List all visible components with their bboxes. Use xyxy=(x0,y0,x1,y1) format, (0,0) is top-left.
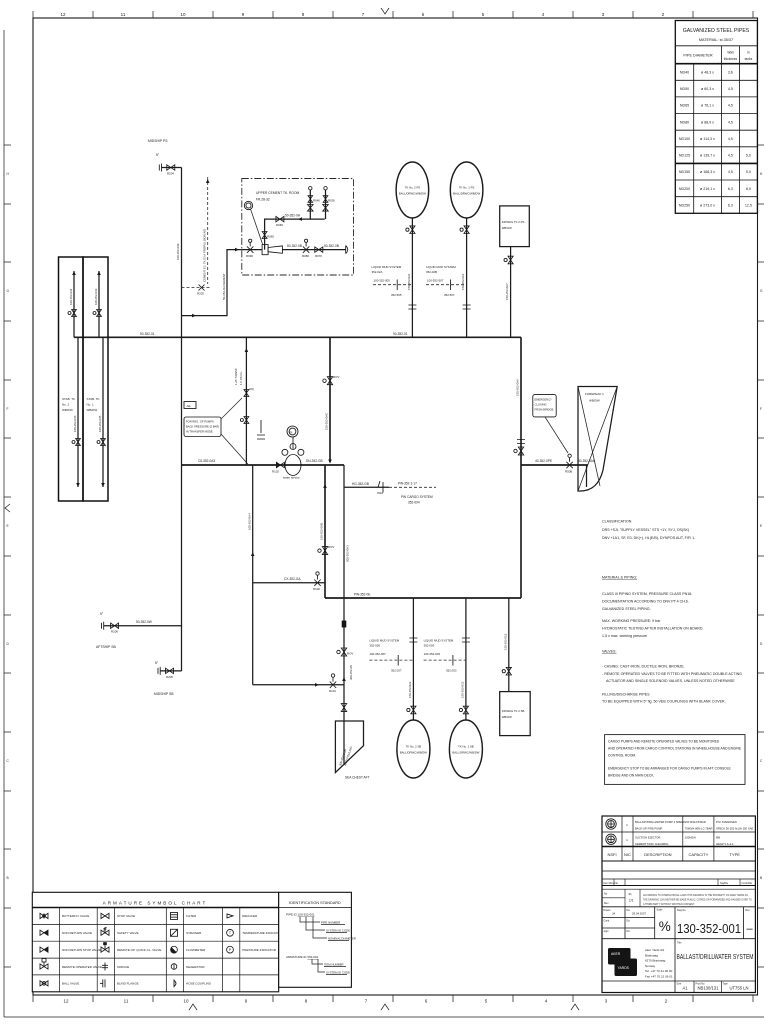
svg-text:PIPE NUMBER: PIPE NUMBER xyxy=(321,921,340,925)
svg-text:E: E xyxy=(760,524,762,528)
svg-text:ø 219,1 x: ø 219,1 x xyxy=(700,187,715,191)
svg-text:Fax +47 70 21 06 01: Fax +47 70 21 06 01 xyxy=(645,975,673,979)
svg-text:FOREPEAK 1: FOREPEAK 1 xyxy=(585,392,604,396)
svg-text:R090: R090 xyxy=(246,254,253,258)
cement inlet valve xyxy=(247,246,253,252)
svg-text:352-02A: 352-02A xyxy=(372,270,383,274)
svg-text:DNV +1A1, SF, E0, DK(+), HL(E/: DNV +1A1, SF, E0, DK(+), HL(E/B), DYNPOS… xyxy=(602,536,695,540)
svg-text:100-352-045: 100-352-045 xyxy=(98,415,102,432)
big loop left lower edge xyxy=(324,465,326,598)
symbol non return stop valve xyxy=(40,947,48,952)
svg-text:TEMPERATURE INDICATOR: TEMPERATURE INDICATOR xyxy=(242,931,282,935)
svg-text:SYSTEM ID CODE: SYSTEM ID CODE xyxy=(326,971,350,975)
svg-text:A1: A1 xyxy=(682,986,688,991)
sheet bottom edge xyxy=(4,1016,764,1018)
svg-text:10: 10 xyxy=(180,12,186,17)
symbol orifice xyxy=(104,963,106,971)
water ejector xyxy=(285,455,301,476)
side letters xyxy=(7,172,764,880)
svg-text:P.M. SVENDSEN: P.M. SVENDSEN xyxy=(716,820,737,824)
svg-text:AKER: AKER xyxy=(611,952,621,956)
svg-text:AFTSHIP SB: AFTSHIP SB xyxy=(96,645,116,649)
tank 2 SB valve xyxy=(411,706,416,714)
svg-text:PIPE ID 100-352-001: PIPE ID 100-352-001 xyxy=(286,913,315,917)
svg-text:ARMATURE ID 352-001: ARMATURE ID 352-001 xyxy=(286,955,319,959)
svg-text:- CASING: CAST IRON, DUCTILE: - CASING: CAST IRON, DUCTILE IRON, BRONZ… xyxy=(602,665,685,669)
svg-text:MAX. WORKING PRESSURE: 9 bar: MAX. WORKING PRESSURE: 9 bar xyxy=(602,619,661,623)
stab tank no.2 box xyxy=(59,257,84,501)
svg-text:HG-352-GB: HG-352-GB xyxy=(352,482,369,486)
vertical x344 down to sea chest xyxy=(343,465,345,765)
svg-text:10: 10 xyxy=(183,999,189,1004)
svg-text:150-352-022: 150-352-022 xyxy=(408,681,412,698)
cement discharge valves xyxy=(303,246,309,252)
svg-text:R203: R203 xyxy=(197,292,204,296)
svg-text:WB/DW: WB/DW xyxy=(502,715,512,719)
svg-text:352-004: 352-004 xyxy=(408,501,420,505)
svg-text:R100: R100 xyxy=(313,587,320,591)
symbol reducer xyxy=(227,914,233,918)
svg-text:100-352-044: 100-352-044 xyxy=(69,288,73,305)
svg-text:PW-352-0E: PW-352-0E xyxy=(354,592,370,596)
bottom ruler ticks xyxy=(33,995,753,1002)
svg-text:LIQUID MUD SYSTEM: LIQUID MUD SYSTEM xyxy=(369,639,399,643)
sheet left edge xyxy=(3,30,5,1017)
svg-text:150-352-012: 150-352-012 xyxy=(503,633,507,650)
svg-text:AND OPERATED FROM CARGO CONTRO: AND OPERATED FROM CARGO CONTROL STATIONS… xyxy=(608,747,742,751)
svg-text:300-352-0S: 300-352-0S xyxy=(349,665,353,680)
svg-text:R204: R204 xyxy=(167,172,174,176)
svg-text:R070: R070 xyxy=(315,254,322,258)
valve forepeak line xyxy=(566,462,572,468)
bottom ruler numbers xyxy=(63,999,667,1004)
svg-text:ORIFICE: ORIFICE xyxy=(117,965,129,969)
svg-text:R030: R030 xyxy=(328,199,335,203)
svg-text:6270 Brattvaag: 6270 Brattvaag xyxy=(645,959,666,963)
svg-text:No. 1: No. 1 xyxy=(87,403,95,407)
svg-text:BALL/DRWC/WB/DW: BALL/DRWC/WB/DW xyxy=(399,192,426,196)
svg-text:Brattvaag: Brattvaag xyxy=(645,953,658,957)
svg-text:PRESSURE INDICATOR: PRESSURE INDICATOR xyxy=(242,948,276,952)
valve on x330 riser xyxy=(327,377,332,385)
svg-text:R101: R101 xyxy=(329,689,336,693)
svg-text:Contr/Da: Contr/Da xyxy=(742,881,753,885)
cargo pumps note box xyxy=(605,735,745,785)
svg-text:GALVANIZED STEEL PIPING.: GALVANIZED STEEL PIPING. xyxy=(602,607,651,611)
svg-text:UPPER CEMENT TK. ROOM: UPPER CEMENT TK. ROOM xyxy=(256,191,300,195)
svg-text:200-352-0A3: 200-352-0A3 xyxy=(346,545,350,562)
svg-text:3,6: 3,6 xyxy=(728,70,733,74)
svg-text:CLOSING: CLOSING xyxy=(535,403,547,407)
galvanized steel pipes table xyxy=(675,21,757,214)
svg-text:50-352-0H CEMENT: 50-352-0H CEMENT xyxy=(222,273,226,300)
svg-text:HYDROSTATIC TESTING AFTER INST: HYDROSTATIC TESTING AFTER INSTALLATION O… xyxy=(602,627,704,631)
svg-text:REDUCER: REDUCER xyxy=(242,914,258,918)
svg-text:Aker Yards AS: Aker Yards AS xyxy=(645,948,664,952)
svg-text:VALVES:: VALVES: xyxy=(602,650,616,654)
note box pumps back pressure xyxy=(184,417,221,437)
emergency closing note xyxy=(533,395,556,417)
pipe labels xyxy=(140,332,595,597)
svg-text:4,5: 4,5 xyxy=(728,87,733,91)
svg-text:in: in xyxy=(747,51,750,55)
rotated pipe labels xyxy=(222,273,520,540)
svg-text:BALL/DRWC/WB/DW: BALL/DRWC/WB/DW xyxy=(400,751,427,755)
tank DR/WAG TK 2 SB xyxy=(500,692,531,736)
tank DR/WAG TK 2 PS xyxy=(500,206,530,247)
svg-text:MIDSHIP PS: MIDSHIP PS xyxy=(148,139,168,143)
tick on cargo branch xyxy=(382,482,384,493)
svg-text:130-352-001: 130-352-001 xyxy=(677,921,741,936)
svg-text:R065: R065 xyxy=(267,235,274,239)
dashed cross connection xyxy=(182,287,211,289)
svg-text:CEMENT TANK CLEANING: CEMENT TANK CLEANING xyxy=(635,842,668,846)
svg-text:100-352-046: 100-352-046 xyxy=(73,415,77,432)
svg-text:Appr: Appr xyxy=(604,930,609,933)
cement ejector line xyxy=(242,249,262,251)
svg-text:A THIRD PARTY WITHOUT WRITTEN: A THIRD PARTY WITHOUT WRITTEN CONSENT. xyxy=(643,903,695,906)
svg-text:150-352-021: 150-352-021 xyxy=(407,273,411,290)
svg-text:PI: PI xyxy=(290,431,293,435)
svg-text:–: – xyxy=(746,923,753,935)
upper cement tk room boundary xyxy=(242,179,354,276)
svg-text:HOSE COUPLING: HOSE COUPLING xyxy=(186,982,212,986)
tank FOREPEAK 1 xyxy=(578,387,617,492)
svg-text:R50B: R50B xyxy=(565,470,572,474)
svg-text:SUCTION EJECTOR: SUCTION EJECTOR xyxy=(635,836,660,840)
svg-text:352.007: 352.007 xyxy=(391,669,402,673)
svg-text:ø 114,3 x: ø 114,3 x xyxy=(700,137,715,141)
tank TK No. 1 PS xyxy=(450,162,483,218)
svg-text:NSFI: NSFI xyxy=(607,852,616,857)
vertical from line A to line B xyxy=(329,337,331,462)
svg-text:ACTUATOR AND SINGLE SOLENOID V: ACTUATOR AND SINGLE SOLENOID VALVES, UNL… xyxy=(606,679,735,683)
svg-text:6,3: 6,3 xyxy=(728,203,733,207)
svg-text:Item Rev No: Item Rev No xyxy=(604,881,619,885)
valve on right edge x521 xyxy=(518,447,523,455)
svg-text:40-352-0PE: 40-352-0PE xyxy=(535,459,552,463)
svg-text:DRS +SJL "SUPPLY VESSEL" STS +: DRS +SJL "SUPPLY VESSEL" STS +1Y, SYJ, O… xyxy=(602,528,689,532)
svg-text:ND125: ND125 xyxy=(679,154,690,158)
svg-text:50-352-0B: 50-352-0B xyxy=(324,244,339,248)
svg-text:11: 11 xyxy=(124,999,129,1004)
svg-text:BALLAST/DRILLWATER PUMP 2 SPEE: BALLAST/DRILLWATER PUMP 2 SPEED xyxy=(635,820,685,824)
svg-text:ND65: ND65 xyxy=(680,104,689,108)
svg-text:100-352-0A4: 100-352-0A4 xyxy=(247,513,251,530)
svg-text:NON RETURN VALVE: NON RETURN VALVE xyxy=(62,931,92,935)
svg-text:CARGO PUMPS AND REMOTE OPERATE: CARGO PUMPS AND REMOTE OPERATED VALVES T… xyxy=(608,740,720,744)
svg-text:C5-352-0A3: C5-352-0A3 xyxy=(198,459,215,463)
svg-text:BALL/DRWC/WB/DW: BALL/DRWC/WB/DW xyxy=(452,751,479,755)
svg-text:SYSTEM ID CODE: SYSTEM ID CODE xyxy=(326,929,350,933)
svg-text:F: F xyxy=(7,407,9,411)
symbol temperature indicator xyxy=(227,929,234,936)
svg-text:Rev: Rev xyxy=(604,902,609,905)
symbol flowmeter xyxy=(171,946,178,953)
symbol pressure indicator xyxy=(227,946,234,953)
svg-text:ROV: ROV xyxy=(347,652,353,656)
svg-text:150-352-0AC: 150-352-0AC xyxy=(325,413,329,430)
svg-text:BACK PRESSURE (5 BAR): BACK PRESSURE (5 BAR) xyxy=(186,425,219,429)
fittings on sea chest leg xyxy=(342,621,347,628)
svg-text:FLOWMETER: FLOWMETER xyxy=(186,948,206,952)
ejector drive riser xyxy=(265,219,325,250)
svg-text:B: B xyxy=(7,876,9,880)
svg-text:NON RETURN STOP VALVE: NON RETURN STOP VALVE xyxy=(62,948,101,952)
svg-text:FR.28-32: FR.28-32 xyxy=(256,198,270,202)
big loop right edge xyxy=(520,337,522,598)
centering mark bottom left xyxy=(189,1004,197,1010)
side ruler ticks xyxy=(4,145,764,967)
svg-text:Title: Title xyxy=(677,942,682,945)
line B (suction header) xyxy=(182,464,345,466)
symbol ball valve xyxy=(40,981,48,986)
svg-text:CONTROL ROOM.: CONTROL ROOM. xyxy=(608,754,636,758)
svg-text:Dwg No: Dwg No xyxy=(677,909,686,912)
tank TK No. 2 PS xyxy=(396,162,429,218)
midship ps riser xyxy=(181,168,183,672)
svg-text:PIPE DIAMETER: PIPE DIAMETER xyxy=(683,54,713,58)
svg-text:WB/DW: WB/DW xyxy=(502,226,512,230)
svg-text:TK No. 1 SB: TK No. 1 SB xyxy=(458,745,474,749)
svg-text:CLASSIFICATION: CLASSIFICATION xyxy=(602,520,632,524)
svg-text:Norway: Norway xyxy=(645,964,656,968)
svg-text:CX-352-GA: CX-352-GA xyxy=(284,577,301,581)
svg-text:1.5 PS CL.: 1.5 PS CL. xyxy=(239,371,243,385)
svg-text:29.04.2007: 29.04.2007 xyxy=(632,912,646,916)
svg-text:STAB. TK: STAB. TK xyxy=(62,397,75,401)
tank 1 PS valve xyxy=(464,226,469,234)
svg-text:8,0: 8,0 xyxy=(746,187,751,191)
svg-text:ND80: ND80 xyxy=(680,120,689,124)
svg-text:BLIND FLANGE: BLIND FLANGE xyxy=(117,982,139,986)
top ruler numbers xyxy=(60,12,664,17)
svg-text:100-352-505: 100-352-505 xyxy=(374,279,391,283)
liquid mud dashed sb 1 xyxy=(424,659,466,661)
svg-text:FOR REG. OF PUMPS: FOR REG. OF PUMPS xyxy=(186,420,214,424)
svg-text:STOP VALVE: STOP VALVE xyxy=(117,914,135,918)
liquid mud dashed ps 1 xyxy=(426,284,467,286)
svg-text:R040: R040 xyxy=(313,199,320,203)
svg-text:MB: MB xyxy=(716,836,720,840)
svg-text:LIQUID MUD SYSTEM: LIQUID MUD SYSTEM xyxy=(424,639,454,643)
svg-text:100-352-003: 100-352-003 xyxy=(424,652,441,656)
svg-text:LIQUID MUD SYSTEM: LIQUID MUD SYSTEM xyxy=(426,265,456,269)
svg-text:REMOTE OP. QUICK CL. VALVE: REMOTE OP. QUICK CL. VALVE xyxy=(117,948,161,952)
cement ejector body xyxy=(262,245,268,255)
symbol deaerator xyxy=(171,964,177,970)
stab tank no.1 box xyxy=(83,257,108,501)
valve on x325 leg xyxy=(322,547,327,555)
svg-text:75M3/H-80M LC-7BAR: 75M3/H-80M LC-7BAR xyxy=(685,827,713,831)
svg-text:ND200: ND200 xyxy=(679,187,690,191)
svg-text:EMERGENCY: EMERGENCY xyxy=(535,398,553,402)
svg-text:water ejector: water ejector xyxy=(283,476,300,480)
svg-text:WB/DW: WB/DW xyxy=(87,408,98,412)
svg-text:90-352-01: 90-352-01 xyxy=(140,332,155,336)
svg-text:352-02B: 352-02B xyxy=(426,270,437,274)
svg-text:ROV: ROV xyxy=(328,545,334,549)
svg-text:%: % xyxy=(659,919,671,934)
svg-text:ITEM NUMBER: ITEM NUMBER xyxy=(324,963,344,967)
stab tank labels xyxy=(62,397,100,412)
svg-text:11: 11 xyxy=(121,12,126,17)
svg-text:R102: R102 xyxy=(272,470,279,474)
tank TK No. 2 SB xyxy=(397,720,430,778)
svg-text:5,0: 5,0 xyxy=(746,170,751,174)
pump branch valves xyxy=(245,348,249,352)
svg-text:WB/DW: WB/DW xyxy=(589,399,600,403)
liquid mud dashed sb 2 xyxy=(369,659,413,661)
svg-text:RQ: RQ xyxy=(250,387,255,391)
svg-text:NIC: NIC xyxy=(624,852,631,857)
svg-text:BALL/DRWC/WB/DW: BALL/DRWC/WB/DW xyxy=(453,192,480,196)
material and piping notes xyxy=(602,576,742,704)
svg-text:Sig/Da: Sig/Da xyxy=(720,881,728,885)
svg-text:150-352-0A6: 150-352-0A6 xyxy=(516,379,520,396)
svg-text:352-003: 352-003 xyxy=(424,644,435,648)
stab tank fill pipe 2 lower xyxy=(77,337,79,487)
svg-text:R080: R080 xyxy=(302,254,309,258)
svg-text:DR/WAG TK 2 SB: DR/WAG TK 2 SB xyxy=(502,709,525,713)
svg-text:150-352-012: 150-352-012 xyxy=(460,681,464,698)
svg-text:4,5: 4,5 xyxy=(728,154,733,158)
svg-text:- REMOTE OPERATED VALVES TO B: - REMOTE OPERATED VALVES TO BE FITTED WI… xyxy=(602,672,742,676)
svg-text:FILTER: FILTER xyxy=(186,914,197,918)
svg-text:DESCRIPTION: DESCRIPTION xyxy=(644,852,671,857)
svg-text:NB130/131: NB130/131 xyxy=(698,986,720,991)
centering mark left side xyxy=(5,504,10,512)
symbol blind flange xyxy=(104,979,106,987)
stab tank fill pipe 1 lower xyxy=(102,337,104,487)
svg-text:352.003: 352.003 xyxy=(446,669,457,673)
svg-text:IDENTIFICATION STANDARD: IDENTIFICATION STANDARD xyxy=(289,901,341,905)
svg-text:DOCUMENTATION ACCORDING TO DNV: DOCUMENTATION ACCORDING TO DNV PT.4 CH.6… xyxy=(602,600,689,604)
svg-text:ø 139,7 x: ø 139,7 x xyxy=(700,154,715,158)
identification standard box xyxy=(279,892,356,987)
AE box on riser xyxy=(184,402,196,409)
svg-text:352.507: 352.507 xyxy=(444,293,455,297)
svg-text:1/1: 1/1 xyxy=(629,899,634,903)
svg-text:MATERIAL & PIPING:: MATERIAL & PIPING: xyxy=(602,576,637,580)
centering mark top xyxy=(381,8,389,14)
svg-text:352-005: 352-005 xyxy=(369,644,380,648)
line D to forepeak xyxy=(521,464,588,466)
svg-text:50-352-0W: 50-352-0W xyxy=(136,620,152,624)
svg-text:150-352-011: 150-352-011 xyxy=(461,273,465,290)
svg-text:ø 273,0 x: ø 273,0 x xyxy=(700,203,715,207)
svg-text:CAPACITY: CAPACITY xyxy=(689,852,709,857)
svg-text:WB/DW: WB/DW xyxy=(62,408,73,412)
svg-text:PW-352-1-17: PW-352-1-17 xyxy=(398,482,417,486)
symbol stop valve xyxy=(101,913,109,918)
svg-text:100-352-040: 100-352-040 xyxy=(176,243,180,260)
svg-text:Contr: Contr xyxy=(604,920,610,923)
svg-text:IN TRANSFER MODE: IN TRANSFER MODE xyxy=(186,430,213,434)
svg-text:BACK-UP FIRE PUMP: BACK-UP FIRE PUMP xyxy=(635,827,662,831)
svg-text:DN-352-GB: DN-352-GB xyxy=(306,459,323,463)
svg-text:FILLING/DISCHARGE PIPES: FILLING/DISCHARGE PIPES xyxy=(602,693,650,697)
svg-text:Size: Size xyxy=(677,983,682,986)
svg-text:STAB. TK: STAB. TK xyxy=(87,397,100,401)
svg-text:TK No. 2 PS: TK No. 2 PS xyxy=(405,186,421,190)
armature symbol chart xyxy=(32,892,282,992)
bottom cross line to sea chest leg xyxy=(253,684,344,686)
symbol remote operated valve xyxy=(40,964,48,969)
svg-text:5,0: 5,0 xyxy=(746,154,751,158)
svg-text:THE DRAWING CAN NEITHER BE MAD: THE DRAWING CAN NEITHER BE MADE PUBLIC, … xyxy=(643,899,752,902)
branch jog to cement room xyxy=(182,250,242,316)
svg-text:GEAR V A-3-4: GEAR V A-3-4 xyxy=(716,842,734,846)
svg-text:90-352-01: 90-352-01 xyxy=(393,332,408,336)
symbol butterfly valve xyxy=(40,913,48,918)
svg-text:TYPE: TYPE xyxy=(729,852,740,857)
svg-text:AE: AE xyxy=(187,404,191,408)
svg-text:BRIDGE AND ON MAIN DECK.: BRIDGE AND ON MAIN DECK. xyxy=(608,774,654,778)
main line A (90-352-01) xyxy=(74,336,521,338)
maker logo anchor xyxy=(606,819,616,829)
svg-text:SAFETY VALVE: SAFETY VALVE xyxy=(117,931,139,935)
svg-text:100-352-007: 100-352-007 xyxy=(369,652,386,656)
svg-text:ND150: ND150 xyxy=(679,170,690,174)
svg-text:ø 168,3 x: ø 168,3 x xyxy=(700,170,715,174)
stab tank suction pipe 2 upper xyxy=(73,271,75,337)
svg-text:ø 60,3 x: ø 60,3 x xyxy=(701,87,714,91)
sea chest aft xyxy=(335,721,363,773)
svg-text:BUTTERFLY VALVE: BUTTERFLY VALVE xyxy=(62,914,89,918)
svg-text:Wall: Wall xyxy=(727,51,733,55)
svg-text:CLASS III PIPING SYSTEM, PRESS: CLASS III PIPING SYSTEM, PRESSURE CLASS … xyxy=(602,592,692,596)
svg-text:ø 48,3 x: ø 48,3 x xyxy=(701,70,714,74)
svg-text:Scale: Scale xyxy=(657,909,664,912)
svg-text:150-352-0AB: 150-352-0AB xyxy=(320,523,324,540)
svg-text:R206: R206 xyxy=(111,630,118,634)
svg-text:JA: JA xyxy=(612,912,615,916)
svg-text:1.25 T/DN50: 1.25 T/DN50 xyxy=(234,368,238,385)
svg-text:UT755 LN: UT755 LN xyxy=(729,986,748,991)
svg-text:STRAINER: STRAINER xyxy=(186,931,202,935)
tank TK No. 1 SB xyxy=(449,720,482,778)
svg-text:DEAERATOR: DEAERATOR xyxy=(186,965,205,969)
svg-text:MIDSHIP SB: MIDSHIP SB xyxy=(154,692,174,696)
svg-text:352.505: 352.505 xyxy=(391,293,402,297)
svg-text:PW CARGO SYSTEM: PW CARGO SYSTEM xyxy=(401,495,433,499)
svg-text:12,5: 12,5 xyxy=(745,203,752,207)
svg-text:R060: R060 xyxy=(276,223,283,227)
svg-text:DR/WAG TK 2 PS: DR/WAG TK 2 PS xyxy=(502,220,525,224)
svg-text:1,5 x max. working pressure: 1,5 x max. working pressure xyxy=(602,634,647,638)
svg-text:ACCORDING TO INTERNATIONAL LAW: ACCORDING TO INTERNATIONAL LAWS THIS DRA… xyxy=(643,894,749,897)
svg-text:CEMENT EJ. TK 03 A PROPULSION: CEMENT EJ. TK 03 A PROPULSION AID xyxy=(203,229,207,282)
svg-text:4,5: 4,5 xyxy=(728,137,733,141)
svg-text:4,5: 4,5 xyxy=(728,104,733,108)
svg-text:MATERIAL: st.35/37: MATERIAL: st.35/37 xyxy=(699,38,733,42)
svg-text:ø 88,9 x: ø 88,9 x xyxy=(701,120,714,124)
svg-text:YARDS: YARDS xyxy=(618,966,630,970)
svg-text:12: 12 xyxy=(63,999,69,1004)
ejector inlet valve xyxy=(276,462,284,467)
svg-text:352A: 352A xyxy=(377,491,383,495)
svg-text:Type: Type xyxy=(723,983,729,986)
svg-text:B: B xyxy=(760,876,762,880)
svg-text:ARMATURE SYMBOL CHART: ARMATURE SYMBOL CHART xyxy=(103,901,208,906)
svg-text:LIQUID MUD SYSTEM: LIQUID MUD SYSTEM xyxy=(372,265,402,269)
svg-text:SPECK 50-250 ALLW 250 SAE: SPECK 50-250 ALLW 250 SAE xyxy=(716,827,754,831)
svg-text:GALVANIZED STEEL PIPES: GALVANIZED STEEL PIPES xyxy=(683,28,750,34)
centering mark bottom center xyxy=(381,1004,389,1010)
svg-text:40-352-0A6: 40-352-0A6 xyxy=(578,459,595,463)
svg-text:TK No. 2 SB: TK No. 2 SB xyxy=(406,745,422,749)
